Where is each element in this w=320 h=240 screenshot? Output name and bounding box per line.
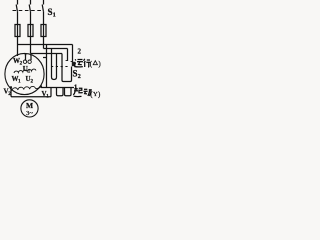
switch S1 blade pole 3 (42, 5, 43, 12)
symbol triangle (93, 61, 97, 65)
winding coil row 2 (14, 69, 36, 73)
label S2 (73, 69, 81, 81)
wire branch2 horizontal y53.5 (31, 53, 63, 55)
label (triangle) (90, 60, 102, 68)
wire L1 top stub (17, 0, 19, 5)
wire L3 middle (43, 11, 45, 24)
svg-text:S: S (48, 7, 53, 17)
contact tick pole3 (71, 61, 73, 63)
label run(delta) chinese (74, 59, 90, 67)
wire branch3 drop right (67, 49, 69, 62)
label W1 (12, 75, 22, 85)
wire hinge column C (56, 54, 58, 78)
wire U strap B-C (52, 77, 57, 80)
wire branch1 drop right (72, 45, 74, 63)
motor stator circle (5, 53, 44, 94)
wire phase3 down (43, 36, 45, 49)
switch S1 blade pole 1 (16, 5, 17, 12)
wire coil V left end (11, 88, 12, 91)
wire hinge column A (46, 45, 48, 88)
switch S1 linkage dashed (13, 10, 44, 12)
wire pole drop from x62 to bottom (62, 67, 72, 82)
wire hinge column B (51, 49, 53, 78)
svg-text:2: 2 (78, 48, 82, 56)
fuse FU2 (28, 24, 33, 37)
switch S1 blade pole 2 (29, 5, 30, 12)
wire bottom horizontal y87.6 (41, 87, 74, 89)
svg-text:S: S (73, 69, 78, 79)
char xing (84, 59, 91, 67)
char dong (84, 89, 92, 96)
contact tick pole2 (66, 60, 68, 62)
fuse FU3 (41, 24, 46, 37)
label start(Y) chinese (73, 88, 92, 97)
wire L2 middle (30, 11, 32, 24)
svg-text:2: 2 (78, 74, 81, 80)
node terminal dot top1 (25, 54, 27, 56)
switch S2 linkage dashed (51, 66, 69, 68)
wire phase1 to motor terminal (17, 36, 19, 56)
label S1 (48, 7, 56, 19)
winding loop 1 (23, 60, 26, 63)
wire branch2 drop right (61, 54, 63, 68)
wire coil V right end (36, 87, 41, 89)
motor circle M (21, 100, 38, 117)
wire L3 top stub (43, 0, 45, 5)
fuse FU1 (15, 24, 20, 37)
winding coil bottom V (12, 86, 36, 90)
switch S2 handle blob (72, 62, 76, 66)
wire winding lead top 2 (30, 55, 32, 60)
wire U strap bottom 1 (57, 88, 64, 96)
char yun (74, 59, 83, 67)
wire L1 middle (17, 11, 19, 24)
wire branch3 horizontal y49 (44, 48, 68, 50)
wire star return left (11, 87, 51, 96)
label V1 (42, 90, 50, 100)
wire winding lead top 1 (25, 54, 27, 60)
label U2 (26, 75, 34, 85)
label (Y) (90, 90, 101, 98)
wire L2 top stub (30, 0, 32, 5)
label W2 (13, 57, 23, 67)
char qi (73, 88, 82, 97)
wire phase2 down (30, 36, 32, 54)
node V1 terminal dot (40, 85, 42, 87)
label U1 (23, 65, 31, 75)
node V2 terminal dot (10, 86, 12, 88)
winding loop 2 (28, 60, 31, 63)
label M 3~ (26, 101, 33, 117)
node terminal dot top2 (30, 54, 32, 56)
label V2 (4, 88, 12, 98)
svg-text:3~: 3~ (26, 110, 33, 117)
wire stub to motor terminal right (43, 57, 47, 59)
svg-text:1: 1 (53, 13, 56, 19)
wire U strap bottom 2 (65, 88, 72, 96)
wire branch1 horizontal y44 (18, 44, 73, 46)
